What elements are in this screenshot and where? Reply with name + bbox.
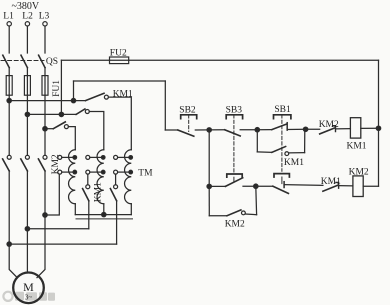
svg-text:KM1: KM1 — [94, 182, 104, 202]
wire star bus ghost line — [76, 218, 133, 220]
transformer TM coil 1 — [69, 150, 76, 204]
svg-text:KM1: KM1 — [347, 142, 367, 152]
wire QS to FU1 L3 — [44, 68, 46, 76]
wire QS to FU1 L2 — [26, 68, 28, 76]
fuse FU1 pole 3 — [42, 76, 48, 96]
wire node B2 to SB1 lower — [256, 185, 273, 187]
button SB1 cap — [274, 115, 291, 119]
transformer coil1 upper tap terminal — [58, 155, 62, 159]
contactor KM2 selfhold fixed contact — [242, 211, 246, 215]
button SB2 cap — [181, 115, 197, 119]
wire L3 bus to transformer tap — [45, 174, 59, 215]
node right bus KM1 coil junction — [376, 126, 380, 130]
contactor KM2 interlock wire — [306, 128, 320, 130]
wire L3 fuse to row3 — [44, 95, 46, 129]
node B2 — [254, 184, 258, 188]
node row1-L1 junction — [7, 98, 11, 102]
wire L1 drop to QS — [8, 26, 10, 53]
wire L3 motor lead — [37, 215, 45, 278]
wire FU2 riser — [60, 60, 62, 114]
contactor KM1 aux fixed contact — [285, 152, 289, 156]
wire coil1 lower tap lead — [62, 171, 76, 173]
wire SB3 lower to node B2 — [243, 185, 256, 187]
contactor KM1 tap contact A fixed — [86, 185, 90, 189]
wire coil3 bottom to star bus — [130, 204, 132, 215]
node L2 bus junction — [25, 227, 29, 231]
wire row1 after contact — [108, 97, 131, 150]
wire control rail horizontal — [74, 80, 166, 82]
node L1 terminal — [7, 22, 11, 26]
contactor KM1 main pole 2 fixed contact — [85, 110, 89, 114]
node L2 terminal — [25, 22, 29, 26]
wire transformer star bus — [75, 214, 131, 216]
svg-text:KM2: KM2 — [51, 154, 61, 174]
wire control rail drop — [164, 81, 166, 130]
node B — [255, 128, 259, 132]
svg-text:SB3: SB3 — [226, 106, 243, 116]
svg-text:FU1: FU1 — [52, 80, 62, 97]
wire SB1 to node C — [287, 128, 305, 130]
wire rail to SB2 — [165, 129, 178, 131]
contactor KM1 main pole 1 blade — [86, 93, 105, 100]
wire coil3 lower tap stem — [115, 174, 117, 185]
button SB2 blade — [178, 130, 194, 136]
node A2 — [207, 184, 211, 188]
fuse FU1 pole 1 — [6, 76, 12, 96]
svg-text:KM1: KM1 — [284, 158, 304, 168]
svg-text:KM1: KM1 — [321, 177, 341, 187]
wire L1 down to KM2 contact — [8, 101, 10, 156]
node coil2 lower tap — [101, 170, 105, 174]
wire row3 horizontal — [45, 128, 53, 130]
node row2-FU2riser junction — [59, 112, 63, 116]
wire KM2 selfhold loop right rise — [255, 186, 258, 215]
button SB3 top blade — [225, 130, 241, 136]
wire row1 horizontal — [9, 100, 85, 102]
wire row2 after contact — [89, 112, 104, 150]
svg-text:QS: QS — [46, 57, 58, 67]
wire KM2 selfhold loop bottom right — [245, 213, 256, 216]
switch QS linkage dashed — [1, 60, 44, 62]
wire SB1 lower to KM1 interlock — [284, 184, 323, 187]
button SB3 lower shaft — [233, 177, 235, 182]
transformer coil3 lower tap terminal — [114, 170, 118, 174]
svg-text:~380V: ~380V — [12, 1, 40, 12]
node row3-L3 junction — [43, 127, 47, 131]
transformer TM coil 3 — [125, 150, 132, 204]
contactor KM1 tap contact B fixed — [114, 185, 118, 189]
wire L2 to motor bus — [26, 171, 28, 229]
button SB1 NC blade — [272, 124, 287, 130]
switch QS pole 2 blade — [21, 55, 27, 67]
wire KM1 aux loop left drop — [256, 130, 258, 152]
node coil3 lower tap — [129, 170, 133, 174]
wire L1 fuse to row1 — [8, 95, 10, 100]
wire coil1 bottom to star bus — [74, 204, 76, 215]
wire coil3 upper tap lead — [118, 156, 132, 158]
node coil1 upper tap — [73, 156, 77, 160]
wire KM2 selfhold loop bottom left — [209, 215, 227, 217]
svg-text:SB2: SB2 — [179, 106, 196, 116]
button SB3 lower NO blade — [225, 178, 242, 187]
contactor KM1 tap contact A blade — [83, 189, 89, 201]
node star bus coil2 junction — [102, 212, 106, 216]
node coil2 upper tap — [101, 156, 105, 160]
contactor KM1 tap contact B blade — [110, 189, 116, 201]
wire row2 horizontal — [27, 113, 76, 115]
wire to fuse FU2 — [61, 59, 109, 61]
button SB2 shaft dashed — [188, 115, 190, 132]
contactor KM2 pole 3 fixed contact — [43, 155, 47, 159]
node L3 terminal — [43, 22, 47, 26]
button SB1 shaft dashed — [281, 115, 283, 172]
coil KM2 — [353, 176, 363, 197]
contactor KM1 interlock blade — [323, 185, 338, 191]
node row1 control tap — [71, 98, 75, 102]
wire FU2 to right bus — [129, 59, 379, 61]
wire L1 to motor bus — [8, 171, 10, 244]
node A — [207, 128, 211, 132]
contactor KM2 pole 3 blade — [38, 159, 45, 171]
svg-text:L3: L3 — [39, 12, 50, 22]
node row2-L2 junction — [25, 112, 29, 116]
wire QS to FU1 L1 — [8, 68, 10, 76]
wire node B to SB1 — [257, 129, 272, 131]
wire L2 motor lead — [26, 229, 28, 273]
transformer coil2 upper tap terminal — [86, 155, 90, 159]
transformer coil2 lower tap terminal — [86, 170, 90, 174]
svg-text:M: M — [23, 280, 34, 294]
transformer coil1 lower tap terminal — [58, 170, 62, 174]
contactor KM1 interlock tick — [336, 182, 339, 188]
svg-text:KM1: KM1 — [113, 89, 133, 99]
button SB1 lower tick — [283, 182, 285, 188]
node L3 bus junction — [43, 213, 47, 217]
contactor KM1 aux blade — [272, 147, 286, 153]
button SB3 shaft dashed — [233, 115, 235, 174]
wire coil KM2 to bus — [363, 185, 378, 187]
button SB1 lower blade — [273, 186, 289, 193]
svg-text:TM: TM — [138, 169, 153, 179]
contactor KM1 main pole 3 fixed contact — [64, 125, 68, 129]
wire KM1 aux loop right rise — [304, 129, 306, 152]
coil KM1 — [350, 118, 360, 138]
wire row3 after contact — [68, 127, 75, 150]
wire control rail riser — [73, 81, 75, 101]
contactor KM1 main pole 1 fixed contact — [104, 95, 108, 99]
wire coil2 lower tap lead — [90, 171, 104, 173]
wire KM2 selfhold loop left drop — [208, 186, 210, 215]
node C — [303, 127, 307, 131]
svg-text:FU2: FU2 — [110, 49, 127, 59]
button SB1 lower shaft — [281, 177, 283, 184]
wire node A drop — [208, 130, 210, 187]
contactor KM1 main pole 2 blade — [76, 109, 85, 114]
wire L2 bus — [27, 228, 88, 230]
wire control right bus — [378, 60, 380, 186]
wire L2 down to KM2 contact — [26, 114, 28, 155]
fuse FU2 — [110, 57, 129, 64]
contactor KM2 selfhold blade — [227, 210, 241, 216]
wire L3 down to KM2 contact — [44, 129, 46, 156]
wire L2 drop to QS — [26, 26, 28, 53]
wire L3 drop to QS — [44, 26, 46, 53]
wire L3 to motor bus — [44, 171, 46, 215]
wire coil1 upper tap lead — [62, 156, 76, 158]
button SB3 lower cap — [227, 174, 242, 177]
wire to coil KM2 — [339, 185, 353, 187]
transformer TM coil 2 — [97, 150, 104, 204]
wire coil KM1 to bus — [361, 127, 379, 129]
wire node A2 to SB3 lower — [209, 185, 225, 187]
contactor KM2 interlock blade — [320, 128, 335, 134]
svg-text:3~: 3~ — [25, 294, 33, 302]
wire coil2 lower tap stem — [87, 174, 89, 185]
wire coil3 lower tap lead — [118, 171, 132, 173]
contactor KM2 pole 2 blade — [21, 159, 28, 171]
button SB1 lower cap — [274, 174, 289, 177]
node coil3 upper tap — [129, 156, 133, 160]
wire SB3 to node B — [240, 129, 257, 131]
svg-text:KM2: KM2 — [225, 219, 245, 229]
switch QS pole 1 blade — [3, 55, 9, 67]
switch QS pole 3 blade — [39, 55, 45, 67]
watermark — [3, 292, 55, 301]
wire coil2 bottom to star bus — [103, 204, 105, 215]
wire coil2 upper tap lead — [90, 156, 104, 158]
wire contact A to L2 bus — [88, 201, 90, 229]
wire KM1 aux loop bottom left — [257, 151, 272, 153]
motor M circle — [13, 273, 44, 304]
transformer coil3 upper tap terminal — [114, 155, 118, 159]
svg-text:L2: L2 — [22, 12, 33, 22]
wire L2 fuse to row2 — [26, 95, 28, 114]
fuse FU1 pole 2 — [24, 76, 30, 96]
node coil1 lower tap — [73, 170, 77, 174]
contactor KM2 pole 1 fixed contact — [7, 155, 11, 159]
contactor KM2 interlock tick — [333, 126, 336, 132]
contactor KM2 pole 2 fixed contact — [25, 155, 29, 159]
wire L1 bus — [9, 243, 116, 245]
node L1 bus junction — [7, 242, 11, 246]
button SB3 cap — [226, 115, 242, 119]
wire SB2 to node A — [195, 129, 209, 131]
svg-text:L1: L1 — [3, 12, 14, 22]
button SB1 NC tick — [286, 123, 288, 130]
svg-text:KM2: KM2 — [319, 120, 339, 130]
wire KM1 aux loop bottom right — [289, 152, 305, 154]
wire contact B to L1 bus — [116, 201, 118, 244]
wire node A to SB3 — [209, 129, 225, 131]
wire to coil KM1 — [336, 128, 351, 130]
wire L1 motor lead — [9, 244, 17, 278]
svg-text:SB1: SB1 — [274, 105, 291, 115]
contactor KM2 pole 1 blade — [3, 159, 10, 171]
svg-text:KM2: KM2 — [349, 168, 369, 178]
contactor KM1 main pole 3 blade — [53, 122, 65, 129]
